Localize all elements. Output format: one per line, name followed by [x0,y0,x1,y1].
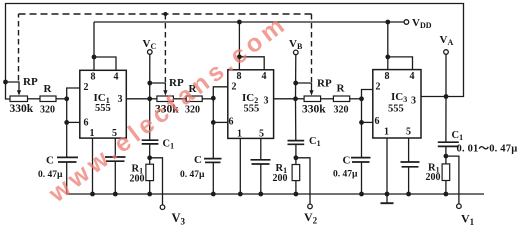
wire R1 to ground stage2 [295,181,297,194]
wire RP2 to R2 [173,98,186,100]
node bar IC3 [385,55,390,60]
svg-text:VA: VA [440,34,454,47]
terminal VDD [404,20,409,25]
svg-text:3: 3 [118,94,123,105]
node R1 ground stage2 [294,192,299,197]
wire pin5 IC2 upper [260,138,262,159]
node C ground stage3 [359,192,364,197]
svg-text:VB: VB [289,38,303,51]
terminal V2 [308,204,313,209]
capacitor pin5 bypass IC1 [105,157,126,161]
svg-text:8: 8 [385,71,390,82]
wire VB to RP3 wiper [296,83,312,92]
svg-text:RP: RP [23,76,38,88]
svg-text:3: 3 [264,96,269,107]
svg-text:5: 5 [259,129,264,140]
svg-text:320: 320 [334,105,349,116]
capacitor pin5 bypass IC2 [251,160,271,164]
node C1-R1 stage1 [147,155,152,160]
svg-text:555: 555 [244,104,260,115]
wire C to ground rail [66,162,68,194]
wire bar 8-4 IC3 [388,57,413,70]
svg-text:V1: V1 [461,212,475,228]
wire VDD drop to pins 8-4 bar IC1 [93,22,95,70]
resistor R1 200 stage1 [146,164,154,180]
svg-text:1: 1 [237,129,242,140]
svg-text:0. 01～0. 47µ: 0. 01～0. 47µ [457,144,518,155]
node VC chain [147,96,152,101]
node R1 ground stage1 [147,192,152,197]
wire pin5 cap to ground [114,161,116,194]
potentiometer RP2 arrowhead [163,90,167,95]
svg-text:6: 6 [375,116,380,127]
wire node A2 to pin2 IC2 [213,87,228,98]
svg-text:C1: C1 [452,130,464,142]
wire VDD drop to pins 8-4 bar IC2 [238,22,240,70]
svg-text:200: 200 [426,172,441,183]
svg-text:R: R [44,83,53,95]
wire node A1 to pin2 IC1 [67,88,80,99]
capacitor C 0.47u stage1 [57,157,78,162]
svg-text:6: 6 [84,118,89,129]
node VC wiper tap [147,81,152,86]
node C ground stage2 [211,192,216,197]
wire node A2 down to C [212,98,214,158]
wire pin3 IC1 to node VC [126,98,149,100]
wire C to ground stage3 [361,162,363,194]
wire node VB down to C1 stage2 [295,99,297,141]
svg-text:2: 2 [376,82,381,93]
capacitor C1 stage3 [438,142,459,146]
op-amp IC2 555 box [228,70,274,139]
node VB chain [293,96,298,101]
node VDD-IC2 [237,20,242,25]
wire VDD rail [94,21,404,23]
wire VA terminal down [445,54,447,96]
svg-text:0. 47µ: 0. 47µ [333,170,358,180]
resistor R1 200 stage2 [292,165,300,181]
capacitor pin5 bypass IC3 [401,162,420,167]
resistor R 320 stage1 [40,96,56,102]
svg-text:R: R [337,83,346,95]
wire pin6 IC2 [213,121,228,123]
node pin5 ground stage3 [406,192,411,197]
svg-text:8: 8 [91,72,96,83]
svg-text:6: 6 [229,117,234,128]
node dashed junction [163,12,167,16]
svg-text:RP: RP [317,78,332,90]
wire V2 branch [296,158,310,204]
node A3 pin2/6 net [359,96,364,101]
svg-text:4: 4 [114,72,119,83]
svg-text:C: C [343,154,351,166]
svg-text:0. 47µ: 0. 47µ [180,170,205,180]
svg-text:C: C [46,155,54,167]
wire node A1 down to C [66,99,68,158]
wire pin1 IC1 to ground [92,138,94,194]
wire RP3 to R3 [321,98,334,100]
potentiometer RP2 body 330k [157,96,174,102]
svg-text:C1: C1 [163,139,175,151]
wire pin3 IC2 to node VB [274,98,296,100]
potentiometer RP3 body 330k [304,96,321,102]
node A2 pin2/6 net [211,96,216,101]
wire pin6 IC3 [362,121,373,123]
wire chain to RP2 [150,98,157,100]
wire pin1 IC2 to ground [239,138,241,194]
svg-text:VC: VC [143,38,157,51]
wire dashed feedback top [18,14,20,81]
wire C1 to R1 node [149,144,151,164]
svg-text:1: 1 [90,128,95,139]
node VA pin3 [444,94,449,99]
node VB wiper tap [293,81,298,86]
svg-text:4: 4 [262,71,267,82]
node pin5 ground stage2 [258,192,263,197]
svg-text:555: 555 [95,103,111,114]
wire pin5 cap to ground stage2 [260,164,262,194]
node pin5 ground [113,192,118,197]
node R1 ground stage3 [444,192,449,197]
wire VDD drop to pins 8-4 bar IC3 [387,22,389,70]
svg-text:2: 2 [232,82,237,93]
potentiometer RP1 body 330k [10,96,28,102]
node pin6 tap [64,120,69,125]
node bar IC1 [92,55,97,60]
potentiometer RP1 wiper branch [6,82,20,92]
svg-text:1: 1 [384,127,389,138]
ground symbol [381,194,394,203]
terminal V3 [160,205,165,210]
svg-text:2: 2 [84,82,89,93]
node A1 pin2/6 net [64,96,69,101]
wire VA node down to C1 stage3 [445,97,447,143]
svg-text:V2: V2 [304,210,318,226]
wire VB terminal down [295,55,297,99]
terminal VC [148,50,153,55]
svg-text:C1: C1 [309,136,321,148]
wire ground rail [67,193,484,195]
wire R to node A1 [56,98,67,100]
wire R2 to node A2 [202,98,213,100]
node VDD-IC3 [385,20,390,25]
wire C1 to R1 node stage2 [295,144,297,164]
potentiometer RP1 arrowhead [17,90,21,95]
node pin6 tap stage2 [211,120,216,125]
terminal V1 [457,204,462,209]
svg-text:330k: 330k [10,103,34,115]
node C1-R1 stage2 [294,155,299,160]
wire node A3 down to C [361,99,363,158]
resistor R 320 stage3 [333,96,349,102]
svg-text:320: 320 [40,105,55,116]
wire VC terminal down [149,54,151,99]
capacitor C1 stage1 [142,140,159,144]
svg-text:V3: V3 [172,211,186,227]
wire R1 to ground [149,181,151,194]
svg-text:330k: 330k [302,104,326,116]
resistor R 320 stage2 [186,96,202,102]
wire bar 8-4 IC1 [94,57,116,70]
wire V3 branch [150,158,163,205]
terminal VA [444,50,449,55]
node left rail wiper tap [3,80,8,85]
wire feedback loop from IC3 pin3 around top to left rail [6,4,464,100]
node bar IC2 [237,54,242,59]
wire VC to RP2 wiper [150,83,166,92]
resistor R1 200 stage3 [442,164,450,181]
wire dashed drop to RP3 wiper [311,14,313,82]
wire pin6 IC1 [67,121,80,123]
wire pin5 IC1 upper [114,138,116,157]
wire pin1 IC3 to ground [386,138,388,194]
capacitor C 0.47u stage3 [351,158,371,162]
wire R3 to node A3 [350,98,362,100]
svg-text:4: 4 [410,71,415,82]
terminal VB [294,50,299,55]
wire pin5 IC3 upper [408,138,410,162]
svg-text:VDD: VDD [412,17,432,30]
node pin6 tap stage3 [359,120,364,125]
wire bar 8-4 IC2 [239,57,264,70]
svg-text:200: 200 [273,173,288,184]
node pin1 ground stage2 [238,192,243,197]
op-amp IC1 555 box [80,70,127,138]
wire node A3 to pin2 IC3 [362,90,373,99]
wire V1 branch [446,156,459,204]
wire C1 to R1 node stage3 [445,146,447,164]
node pin1 ground [90,192,95,197]
op-amp IC3 555 box [373,70,421,138]
svg-text:200: 200 [130,174,145,185]
wire node VC down to C1 [149,99,151,140]
wire dashed feedback top horizontal [19,13,312,15]
node C1-R1 stage3 [444,154,449,159]
wire dashed drop to RP2 wiper [164,14,166,82]
capacitor C1 stage2 [288,141,305,145]
node pin1 ground stage3 [385,192,390,197]
potentiometer RP3 arrowhead [309,90,313,95]
wire chain to RP3 [296,98,305,100]
wire R1 to ground stage3 [445,181,447,195]
capacitor C 0.47u stage2 [204,159,222,163]
wire RP1 to R1 [28,98,41,100]
svg-text:555: 555 [388,104,404,115]
svg-text:C: C [194,154,202,166]
wire C to ground stage2 [212,162,214,194]
wire pin5 cap to ground stage3 [408,167,410,194]
svg-text:5: 5 [406,127,411,138]
svg-text:3: 3 [411,96,416,107]
